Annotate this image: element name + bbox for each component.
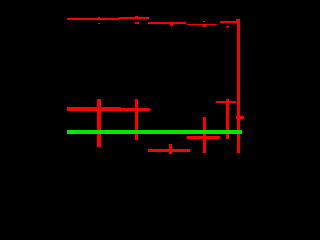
point C2 vertical error bar <box>203 117 206 153</box>
right point F vertical error bar <box>226 99 229 138</box>
point D tick below <box>203 25 205 27</box>
middle vertical error bar 2 <box>135 99 138 140</box>
last point horizontal error bar <box>236 116 244 120</box>
top series segment 5 <box>220 21 240 23</box>
point B dash below <box>135 22 139 23</box>
middle vertical error bar 1 <box>97 99 100 147</box>
point C tick below <box>170 24 172 26</box>
last point top cap tick <box>236 19 238 21</box>
point E tick above <box>226 20 228 23</box>
middle horizontal error bar 2 <box>121 108 150 111</box>
point D dash above <box>203 21 205 22</box>
top series segment 4 <box>187 24 217 26</box>
point B tick above <box>135 16 138 18</box>
last point thick vertical error bar <box>237 19 240 153</box>
top series segment 3 <box>148 22 187 24</box>
point A dash below <box>98 22 101 25</box>
green reference line <box>67 130 243 134</box>
top series segment 2 <box>119 17 149 19</box>
middle horizontal error bar 1 <box>67 107 122 110</box>
right point F horizontal error bar <box>216 101 236 104</box>
point C2 horizontal error bar <box>187 136 220 139</box>
point A tick above <box>98 17 100 19</box>
bottom point B2 horizontal error bar <box>148 149 191 152</box>
bottom point B2 vertical error bar <box>169 144 172 154</box>
top series segment 1 <box>67 18 119 20</box>
point E dash below <box>226 26 229 27</box>
